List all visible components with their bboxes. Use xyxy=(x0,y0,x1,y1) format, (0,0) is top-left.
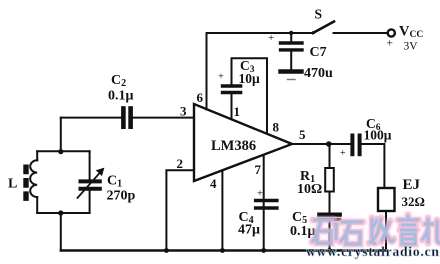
svg-text:4: 4 xyxy=(210,176,217,191)
wire pin 4 to ground rail xyxy=(221,171,223,251)
svg-text:32Ω: 32Ω xyxy=(402,194,425,209)
capacitor C7 470u xyxy=(268,32,333,81)
wire tank loop top xyxy=(37,150,89,152)
svg-text:0.1μ: 0.1μ xyxy=(108,89,134,104)
svg-text:3V: 3V xyxy=(404,41,419,53)
svg-text:VCC: VCC xyxy=(399,24,423,41)
svg-text:+: + xyxy=(268,32,274,44)
svg-text:www.crystalradio.cn: www.crystalradio.cn xyxy=(306,244,440,259)
svg-text:C7: C7 xyxy=(310,45,327,60)
node junction pin2 on rail xyxy=(164,248,169,253)
svg-text:C1: C1 xyxy=(107,174,122,190)
node junction tank bottom xyxy=(58,210,63,215)
svg-text:EJ: EJ xyxy=(403,177,421,193)
resistor R1 10 ohm zobel xyxy=(297,144,334,212)
node junction tank top xyxy=(58,149,63,154)
wire tank loop bottom xyxy=(37,212,89,214)
capacitor C2 0.1u input coupling xyxy=(61,73,194,127)
wire top supply rail from pin 6 to switch xyxy=(207,33,313,110)
node junction C7 top xyxy=(289,31,293,35)
svg-text:5: 5 xyxy=(299,127,306,142)
svg-text:C2: C2 xyxy=(111,73,126,89)
svg-text:L: L xyxy=(8,177,17,192)
wire C2 down to tank top junction xyxy=(60,118,62,152)
node Vcc terminal xyxy=(387,24,424,53)
svg-text:470u: 470u xyxy=(304,66,333,81)
svg-text:10μ: 10μ xyxy=(239,71,261,86)
svg-text:3: 3 xyxy=(180,104,187,119)
svg-text:S: S xyxy=(315,7,323,22)
watermark (decorative) xyxy=(306,215,440,259)
svg-text:7: 7 xyxy=(255,162,262,177)
svg-text:+: + xyxy=(257,189,263,200)
wire output pin 5 xyxy=(292,143,350,145)
svg-text:47μ: 47μ xyxy=(238,223,260,238)
wire switch to Vcc terminal xyxy=(334,32,388,34)
svg-text:LM386: LM386 xyxy=(211,138,256,154)
svg-text:270p: 270p xyxy=(107,189,136,204)
svg-text:100μ: 100μ xyxy=(364,128,392,143)
svg-text:+: + xyxy=(387,38,394,50)
capacitor C1 270p variable tuning xyxy=(78,151,136,213)
wire ground rail bottom xyxy=(61,249,386,251)
svg-text:1: 1 xyxy=(234,104,241,119)
node junction C5 on rail xyxy=(327,248,332,253)
inductor L antenna coil xyxy=(8,151,37,213)
capacitor C5 0.1u zobel xyxy=(290,210,340,251)
svg-text:6: 6 xyxy=(197,90,204,105)
svg-text:+: + xyxy=(218,72,224,83)
switch S xyxy=(312,7,334,35)
ground under C7 xyxy=(281,72,302,80)
capacitor C4 47u bypass on pin 7 xyxy=(238,155,277,251)
wire tank bottom down to ground rail xyxy=(60,213,62,251)
op-amp U1 LM386 xyxy=(194,104,292,181)
capacitor C6 100u output coupling xyxy=(340,116,392,188)
svg-text:2: 2 xyxy=(177,156,184,171)
node junction pin7 on rail xyxy=(261,248,266,253)
svg-text:+: + xyxy=(340,148,346,159)
svg-text:10Ω: 10Ω xyxy=(297,182,322,197)
node junction output xyxy=(326,141,332,147)
node junction pin4 on rail xyxy=(220,248,225,253)
wire pin 2 to ground rail xyxy=(166,170,194,250)
svg-text:8: 8 xyxy=(273,120,280,135)
earphone EJ 32 ohm xyxy=(378,177,425,251)
capacitor C3 10u gain between pins 1 and 8 xyxy=(218,58,267,134)
